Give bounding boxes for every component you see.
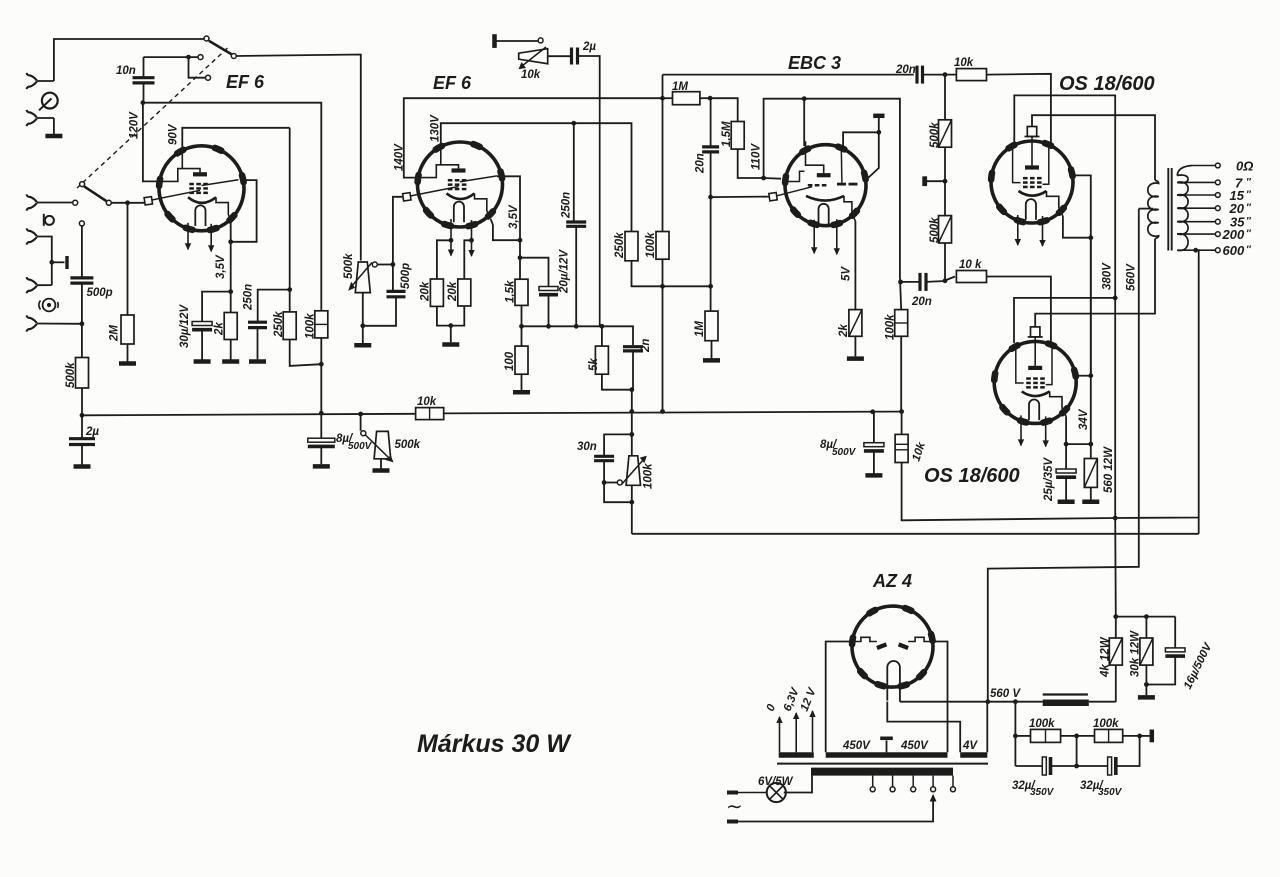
wire node to 100k xyxy=(143,103,321,311)
label 250k V1 xyxy=(273,311,285,338)
junction 560V takeoff xyxy=(985,699,990,704)
selector switch S1a contact xyxy=(204,36,209,41)
label 2n xyxy=(640,339,652,353)
junction filter input xyxy=(1013,699,1018,704)
label 8µ/500V a xyxy=(336,433,373,452)
label 450V a xyxy=(842,740,871,752)
transformer core xyxy=(1168,168,1171,251)
svg-text:OS 18/600: OS 18/600 xyxy=(924,465,1020,487)
wire 30n bottom xyxy=(604,461,632,503)
svg-text:500k: 500k xyxy=(65,362,77,388)
capacitor 500p xyxy=(70,278,93,283)
wire J1 to selector xyxy=(54,39,204,81)
svg-text:5V: 5V xyxy=(841,266,853,281)
capacitor 32µ/350V a xyxy=(1015,736,1076,775)
svg-text:2M: 2M xyxy=(109,325,121,342)
label 250n V2 xyxy=(561,192,573,219)
junction 30n wiper xyxy=(602,480,607,485)
potentiometer 500k volume xyxy=(348,262,393,326)
input jack J2 xyxy=(27,110,54,126)
switch S1b common xyxy=(106,200,146,205)
wire S1a to volume pot xyxy=(236,55,360,261)
label 2k V1 xyxy=(214,322,226,336)
svg-text:20k: 20k xyxy=(447,281,459,302)
selector arrow xyxy=(930,794,937,802)
svg-text:20µ/12V: 20µ/12V xyxy=(559,249,571,294)
junction J4/J5 xyxy=(49,260,54,265)
label 380V xyxy=(1102,262,1114,290)
svg-text:250k: 250k xyxy=(614,232,626,259)
wires 20k pair xyxy=(437,306,464,345)
wire 100k top xyxy=(900,276,901,310)
junction pot bottom xyxy=(360,323,365,328)
tube AZ4 xyxy=(852,606,933,702)
svg-text:20n: 20n xyxy=(695,153,707,174)
ground under 30µ xyxy=(194,330,211,362)
wire anode to 20n2 xyxy=(804,99,900,276)
wire 500k to bus xyxy=(81,388,83,415)
capacitor 500p V2 grid xyxy=(365,265,406,326)
HT centre tap xyxy=(880,738,893,752)
svg-text:10k: 10k xyxy=(521,69,541,81)
HT winding bar xyxy=(826,752,948,758)
label OS 18/600 b xyxy=(924,465,1020,487)
label 0 xyxy=(765,702,779,713)
svg-text:25µ/35V: 25µ/35V xyxy=(1043,457,1055,502)
tube OS1 xyxy=(991,127,1073,248)
junction filter a xyxy=(1013,734,1018,739)
svg-text:100k: 100k xyxy=(643,463,655,489)
capacitor 2µ tone xyxy=(572,48,600,99)
svg-text:500k: 500k xyxy=(395,439,421,451)
label 6V/5W xyxy=(758,776,794,788)
label EF6 V1 xyxy=(226,72,265,92)
junction pot bottom rejoin xyxy=(629,500,634,505)
label 3,5V V2 xyxy=(508,204,520,229)
selector contact upper xyxy=(198,55,203,60)
svg-text:5k: 5k xyxy=(588,358,600,371)
filament wire a xyxy=(900,701,1016,703)
junction filter end xyxy=(1137,734,1142,739)
mains AC symbol xyxy=(726,796,743,818)
label 100k grid EBC3 xyxy=(645,232,657,258)
svg-text:EF 6: EF 6 xyxy=(433,73,472,93)
anode wire OS1 xyxy=(1032,115,1155,180)
label 5V xyxy=(841,266,853,281)
label EF6 V2 xyxy=(433,73,472,93)
label 120V xyxy=(129,111,141,139)
primary centre tap xyxy=(1139,208,1153,210)
resistor 4k 12W xyxy=(1109,617,1122,702)
capacitor 30µ/12V xyxy=(192,322,212,330)
svg-text:1M: 1M xyxy=(694,321,706,337)
divider 500k a xyxy=(939,75,952,216)
junction EBC3 grid xyxy=(708,195,713,200)
wire diode to TR pin xyxy=(843,132,879,149)
svg-text:10n: 10n xyxy=(116,65,136,77)
junction 32µ mid xyxy=(1074,736,1079,768)
label 500p xyxy=(87,287,113,299)
wire 1M-node vertical xyxy=(662,75,664,232)
label AZ4 xyxy=(872,571,912,591)
heater arrow 0 xyxy=(776,716,782,752)
svg-text:20n: 20n xyxy=(911,296,932,308)
svg-text:″: ″ xyxy=(1246,177,1252,188)
svg-text:10k: 10k xyxy=(417,396,437,408)
svg-text:12 V: 12 V xyxy=(799,685,819,713)
svg-text:OS 18/600: OS 18/600 xyxy=(1059,73,1155,95)
label 10k tone xyxy=(521,69,541,81)
svg-text:EBC 3: EBC 3 xyxy=(788,53,841,73)
label OS 18/600 a xyxy=(1059,73,1155,95)
label 20n EBC3 xyxy=(695,153,707,174)
svg-text:6V/5W: 6V/5W xyxy=(758,776,794,788)
label 32µ/350V a xyxy=(1012,780,1055,798)
primary taps xyxy=(870,776,955,792)
svg-text:450V: 450V xyxy=(842,740,871,752)
junction tone tap xyxy=(600,324,605,329)
wire tone to cathode node xyxy=(600,98,602,326)
svg-text:3,5V: 3,5V xyxy=(508,204,520,229)
label 2µ tone xyxy=(582,41,596,53)
heater winding bar xyxy=(779,752,814,758)
svg-text:140V: 140V xyxy=(394,143,406,171)
svg-text:120V: 120V xyxy=(129,111,141,139)
label 450V b xyxy=(900,740,929,752)
label 4k 12W xyxy=(1100,636,1112,678)
svg-text:10k: 10k xyxy=(910,440,928,463)
svg-text:350V: 350V xyxy=(1098,787,1123,798)
svg-text:EF 6: EF 6 xyxy=(226,72,265,92)
wire to 30µ cap xyxy=(202,292,231,322)
wire diode to R pin xyxy=(867,132,879,178)
junction 600 tap xyxy=(1193,248,1198,253)
label 4V xyxy=(962,740,978,752)
junction 380V dropper xyxy=(1113,518,1118,619)
svg-text:100k: 100k xyxy=(1093,718,1119,730)
svg-text:″: ″ xyxy=(1246,216,1252,227)
junction fb line2 corner xyxy=(1198,518,1200,534)
input jack J3 xyxy=(27,194,73,210)
wire 250k bottom xyxy=(290,340,322,366)
input jack J6 xyxy=(27,315,82,331)
junction bus left xyxy=(80,413,85,418)
label 500k volume xyxy=(343,253,355,279)
junction 20n2 right xyxy=(943,278,948,283)
switch S1b lever xyxy=(80,182,107,202)
wire to 20µ cap xyxy=(520,258,549,287)
svg-text:380V: 380V xyxy=(1102,262,1114,290)
svg-text:100: 100 xyxy=(504,351,516,371)
anode wire V2 (140V) xyxy=(404,98,661,177)
wire 100k pot chain xyxy=(631,412,633,534)
svg-text:500k: 500k xyxy=(343,253,355,279)
screen wire OS1 (380V) xyxy=(1014,95,1115,518)
svg-text:″: ″ xyxy=(1246,203,1252,214)
svg-text:30µ/12V: 30µ/12V xyxy=(179,304,191,348)
svg-text:16µ/500V: 16µ/500V xyxy=(1182,640,1215,691)
capacitor 2n xyxy=(623,347,643,351)
switch S1b contact xyxy=(73,200,78,205)
label 10k bias xyxy=(910,440,928,463)
label 130V xyxy=(430,114,442,142)
svg-text:110V: 110V xyxy=(751,143,763,170)
filament wire b xyxy=(887,702,960,753)
ground under 2µ xyxy=(74,445,91,467)
junction 100k bottom xyxy=(319,338,324,415)
anode wire OS2 xyxy=(1035,239,1155,328)
junction bus 100k2 xyxy=(899,409,904,414)
label 32µ/350V b xyxy=(1080,780,1123,798)
junction fb/380V xyxy=(1113,516,1118,521)
svg-text:2µ: 2µ xyxy=(582,41,596,53)
input jack J1 xyxy=(27,73,54,89)
label 140V xyxy=(394,143,406,171)
label 20n out a xyxy=(895,64,916,76)
svg-text:250n: 250n xyxy=(561,192,573,219)
cathode bus line xyxy=(522,326,634,345)
junction at 10n top xyxy=(186,55,191,60)
label 30n xyxy=(577,441,597,453)
svg-text:30k 12W: 30k 12W xyxy=(1130,630,1142,677)
label 500p V2 xyxy=(400,263,412,289)
svg-text:560 V: 560 V xyxy=(990,688,1021,700)
label EBC3 xyxy=(788,53,841,73)
label 20n out b xyxy=(911,296,932,308)
tone pot 10k xyxy=(519,38,572,69)
junction 20n2 left xyxy=(898,280,903,285)
cathode junction V2 xyxy=(518,238,523,243)
svg-text:4V: 4V xyxy=(962,740,978,752)
junction bus 1M-node xyxy=(660,409,665,414)
potentiometer 500k bus xyxy=(361,414,394,471)
resistor 2M grid leak xyxy=(119,203,136,364)
title Márkus 30W xyxy=(417,730,572,758)
svg-text:1,5M: 1,5M xyxy=(721,121,733,147)
stub capacitor plate xyxy=(52,256,67,269)
svg-text:250k: 250k xyxy=(273,311,285,338)
svg-text:600: 600 xyxy=(1223,243,1245,258)
junction 20µ tap xyxy=(518,255,523,260)
transformer secondary xyxy=(1177,166,1192,251)
svg-text:500p: 500p xyxy=(400,263,412,289)
junction OS1 cathode xyxy=(1088,235,1093,240)
junction 1M right xyxy=(708,96,713,101)
junction 30k top xyxy=(1144,614,1149,619)
capacitor 20n grid EBC3 xyxy=(702,98,719,197)
wire mains b to selector xyxy=(738,799,933,822)
capacitor 20n out a xyxy=(917,66,945,84)
label 2k EBC3 xyxy=(838,324,850,338)
junction 30k bottom xyxy=(1138,682,1155,697)
wire grid to cap square xyxy=(711,196,770,199)
mains terminal b xyxy=(727,820,738,824)
resistor 10k bias xyxy=(895,412,908,521)
pickup symbol xyxy=(44,214,54,226)
4V winding bar xyxy=(960,752,987,758)
label 10n xyxy=(116,65,136,77)
label 1,5k xyxy=(505,280,517,303)
resistor 100 V2 xyxy=(513,326,530,392)
potentiometer 100k feedback xyxy=(606,456,647,486)
label 34V xyxy=(1078,408,1090,430)
resistor 100k EBC3 xyxy=(895,310,908,412)
label 12V xyxy=(799,685,819,713)
resistor 100k filter b xyxy=(1077,729,1140,742)
capacitor 250n V2 xyxy=(566,123,586,326)
svg-text:∼: ∼ xyxy=(726,796,743,818)
label 100k filter a xyxy=(1029,718,1055,730)
junction wiper node xyxy=(391,262,396,267)
svg-text:20n: 20n xyxy=(895,64,916,76)
resistor 100k grid EBC3 xyxy=(656,232,669,412)
svg-text:560V: 560V xyxy=(1126,263,1138,291)
switch contact to 500p xyxy=(79,221,84,278)
svg-text:4k 12W: 4k 12W xyxy=(1100,636,1112,678)
svg-text:500k: 500k xyxy=(929,217,941,243)
label 3,5V V1 xyxy=(215,254,227,279)
wire 10n to node 120V xyxy=(143,83,145,103)
capacitor 25µ/35V xyxy=(1056,444,1076,502)
label 100k filter b xyxy=(1093,718,1119,730)
resistor 20k a xyxy=(430,240,451,306)
capacitor 10n xyxy=(133,57,198,83)
label 20µ/12V xyxy=(559,249,571,294)
primary winding bar xyxy=(811,768,953,776)
label 30µ/12V xyxy=(179,304,191,348)
svg-text:10 k: 10 k xyxy=(959,259,982,271)
wire pot bottom to gnd xyxy=(354,326,371,345)
tube EF6 V1 xyxy=(156,146,244,253)
junction 5k/2n bottom xyxy=(602,351,634,412)
junction 110V node xyxy=(761,176,766,181)
pilot lamp 6V/5W xyxy=(767,783,786,802)
svg-text:500k: 500k xyxy=(929,122,941,148)
junction bus 2n xyxy=(629,409,634,414)
tube OS2 xyxy=(994,327,1076,448)
label 30k 12W xyxy=(1130,630,1142,677)
svg-text:3,5V: 3,5V xyxy=(215,254,227,279)
node 120V junction xyxy=(141,100,146,105)
secondary taps xyxy=(1177,163,1220,253)
cathode junction V1 b xyxy=(228,289,233,294)
junction filter mid xyxy=(1074,734,1079,739)
wire 4V to cathode line xyxy=(986,702,988,753)
svg-text:250n: 250n xyxy=(243,284,255,311)
svg-text:100k: 100k xyxy=(645,232,657,258)
chassis bar diode xyxy=(873,116,884,133)
svg-text:30n: 30n xyxy=(577,441,597,453)
choke winding xyxy=(1015,695,1115,703)
capacitor 8µ/500V b xyxy=(864,412,884,476)
label 560 12W xyxy=(1103,446,1115,493)
junction OS2 Rpin tie xyxy=(1088,373,1093,378)
phono symbol (circle with slash) xyxy=(39,93,58,111)
label 8µ/500V b xyxy=(820,439,857,458)
junction heater b V2 xyxy=(469,238,474,243)
label 25µ/35V xyxy=(1043,457,1055,502)
cathode wire OS2 xyxy=(1066,238,1091,444)
mains terminal a xyxy=(727,791,768,795)
label 100 xyxy=(504,351,516,371)
resistor 5k xyxy=(595,326,608,374)
svg-text:0Ω: 0Ω xyxy=(1236,159,1253,174)
wire 250k2/100k3 chain xyxy=(664,285,711,287)
junction bus 8µ b xyxy=(870,409,875,414)
chassis tap divider xyxy=(925,176,945,186)
svg-text:″: ″ xyxy=(1246,229,1252,240)
label 560V takeoff xyxy=(990,688,1021,700)
capacitor 2µ input xyxy=(69,415,95,444)
grid cap EBC3 xyxy=(769,187,812,201)
input jack J5 xyxy=(27,277,52,293)
capacitor 16µ/500V xyxy=(1146,617,1185,685)
resistor 20k b xyxy=(458,240,472,306)
grid cap V1 xyxy=(144,190,200,205)
svg-text:10k: 10k xyxy=(954,57,974,69)
resistor 1M b xyxy=(703,197,720,360)
resistor 10k grid OS1 xyxy=(945,69,1051,146)
svg-text:100k: 100k xyxy=(1029,718,1055,730)
junction anode top xyxy=(802,96,807,101)
tube EBC3 xyxy=(785,141,866,255)
capacitor 32µ/350V b xyxy=(1077,736,1140,775)
junction bus 8µ a xyxy=(319,411,324,416)
input jack J4 xyxy=(27,228,52,285)
anode wire V1 (90V) xyxy=(182,128,289,148)
resistor 250k load V1 xyxy=(283,128,296,340)
svg-text:350V: 350V xyxy=(1030,787,1055,798)
junction 130V/250n2 xyxy=(571,121,576,126)
junction 380V screen2 xyxy=(1113,296,1118,301)
svg-text:500V: 500V xyxy=(832,447,857,458)
junction 1M left xyxy=(660,96,665,101)
label 110V xyxy=(751,143,763,170)
resistor 10k bus xyxy=(416,408,444,420)
label 16µ/500V xyxy=(1182,640,1215,691)
label 500k a xyxy=(929,122,941,148)
svg-text:1M: 1M xyxy=(672,81,688,93)
resistor 100k filter a xyxy=(1015,702,1076,743)
resistor 1,5k cathode V2 xyxy=(515,279,528,326)
label 1M b xyxy=(694,321,706,337)
anode wire AZ4 right xyxy=(932,642,948,753)
resistor 1M grid xyxy=(661,92,710,105)
transformer primary xyxy=(1148,180,1159,238)
resistor 30k 12W xyxy=(1140,617,1153,685)
capacitor 8µ/500V a xyxy=(308,415,335,467)
junction 500p/J6 xyxy=(80,283,85,357)
resistor 1,5M xyxy=(710,98,764,178)
junction 100k3 bottom xyxy=(660,284,665,289)
switch gang dashed link xyxy=(77,48,228,188)
wire 120V to EF6 g2 xyxy=(143,103,159,182)
resistor 560 12W xyxy=(1082,444,1099,502)
tube EF6 V2 xyxy=(415,142,503,257)
rail 560V xyxy=(988,209,1139,702)
wire 110V rectangle xyxy=(764,99,805,179)
capacitor 20n out b xyxy=(901,273,946,291)
cathode wire V1 xyxy=(231,180,257,292)
heater arrow 6,3V xyxy=(793,712,799,752)
resistor 2k EBC3 cathode xyxy=(847,221,864,359)
svg-text:130V: 130V xyxy=(430,114,442,142)
label 10k OS2 xyxy=(959,259,982,271)
label 5k xyxy=(588,358,600,371)
RCA connector symbol xyxy=(39,299,58,312)
capacitor 20µ/12V xyxy=(539,287,558,327)
junction diode node xyxy=(876,130,881,135)
